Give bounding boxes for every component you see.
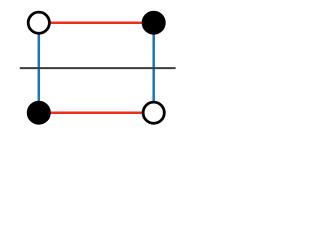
wire: blue right vertical edge [152, 23, 155, 113]
wire: blue left vertical edge [38, 23, 41, 113]
node C: filled circle bottom-left [28, 102, 49, 123]
wire: red top horizontal edge [39, 21, 154, 24]
node B: filled circle top-right [143, 12, 164, 33]
node D: open circle bottom-right [143, 102, 164, 123]
wire: gray middle horizontal line [20, 67, 176, 69]
node A: open circle top-left [28, 12, 49, 33]
wire: red bottom horizontal edge [39, 111, 154, 114]
